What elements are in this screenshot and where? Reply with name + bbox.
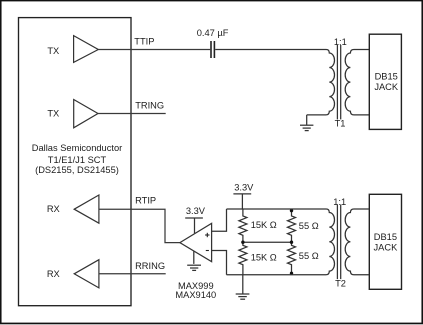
svg-text:DB15: DB15 [375, 71, 398, 81]
svg-text:RX: RX [47, 204, 60, 214]
svg-text:RX: RX [47, 269, 60, 279]
svg-text:1:1: 1:1 [334, 37, 347, 47]
svg-text:TX: TX [47, 109, 59, 119]
svg-text:DB15: DB15 [374, 232, 397, 242]
svg-text:JACK: JACK [374, 82, 399, 92]
svg-text:3.3V: 3.3V [234, 183, 254, 193]
svg-text:T1: T1 [335, 118, 346, 128]
svg-text:(DS2155, DS21455): (DS2155, DS21455) [35, 165, 119, 175]
svg-text:RTIP: RTIP [135, 196, 156, 206]
svg-text:1:1: 1:1 [333, 197, 346, 207]
svg-text:15K Ω: 15K Ω [251, 253, 277, 263]
svg-text:TTIP: TTIP [134, 37, 154, 47]
svg-text:TX: TX [47, 46, 59, 56]
svg-text:15K Ω: 15K Ω [251, 220, 277, 230]
svg-text:55 Ω: 55 Ω [299, 221, 319, 231]
svg-text:T2: T2 [335, 278, 346, 288]
svg-text:0.47 µF: 0.47 µF [197, 28, 229, 38]
svg-text:3.3V: 3.3V [186, 206, 206, 216]
svg-text:Dallas Semiconductor: Dallas Semiconductor [32, 143, 122, 153]
svg-text:RRING: RRING [135, 261, 165, 271]
svg-text:MAX9140: MAX9140 [175, 290, 216, 300]
svg-text:TRING: TRING [135, 101, 164, 111]
svg-text:T1/E1/J1 SCT: T1/E1/J1 SCT [48, 155, 107, 165]
svg-text:55 Ω: 55 Ω [299, 251, 319, 261]
svg-text:JACK: JACK [374, 242, 399, 252]
